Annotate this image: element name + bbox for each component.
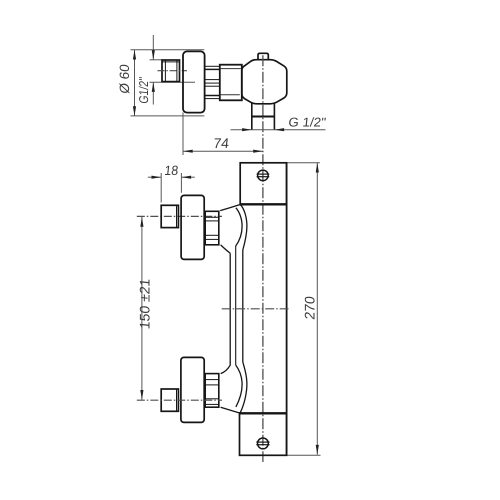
cartridge housing (side view) [220,65,242,101]
dim 18 line right arrow [181,176,194,178]
dim 74 extension (escutcheon edge extended) [182,113,184,156]
dim 74 arrows [183,150,193,153]
dim 270 extension top [287,162,320,164]
top transition shoulder upper [220,205,240,211]
bottom hex nut (front) [205,374,219,408]
wall union square (side view) [162,60,180,82]
dim 270 line [316,163,318,455]
top transition outer curve [240,205,247,251]
outlet (side view) [252,103,275,130]
dim G1/2 line lower segment with up arrow [152,82,154,104]
bottom escutcheon (front) [181,357,204,422]
mid body centerline [222,308,289,310]
dim 74 line [183,150,263,152]
dim 18 line left arrow [148,176,161,178]
dim G1/2 line upper segment with down arrow [152,35,154,60]
top wall plate [240,163,286,205]
svg-text:150 ±21: 150 ±21 [137,278,153,330]
dim Ø60 arrow up [133,50,136,60]
dim Ø60 line [134,50,136,116]
body right edge [286,163,288,456]
top screw [257,170,270,181]
knob centerline (continues into front view) [262,55,264,462]
svg-text:74: 74 [213,135,230,151]
bottom transition shoulder upper [221,372,231,374]
escutcheon (side view) [183,51,205,112]
bottom transition outer curve [240,362,247,413]
connecting tube left edge [221,253,231,373]
top transition inner curve [236,208,242,246]
top escutcheon (front) [181,195,204,259]
top inlet centerline [137,215,222,217]
bottom transition shoulder lower [221,407,240,413]
svg-text:Ø 60: Ø 60 [117,64,132,95]
inlet centerline (side view) [158,70,188,72]
bottom wall plate [240,413,287,455]
dim G 1/2 outlet leader line [231,129,326,131]
svg-text:18: 18 [164,163,179,178]
top transition shoulder lower [221,245,231,253]
bottom plate top thick line [239,412,287,414]
dim Ø60 extension line top [131,49,205,51]
dim 150±21 line [141,217,143,400]
button on knob [258,53,268,59]
dim G1/2 extension bottom [150,81,196,83]
dim 18 extensions [160,173,162,203]
top plate bottom thick line [240,203,288,205]
bottom inlet centerline [137,399,222,401]
dim 150±21 arrows [140,217,143,227]
svg-text:G1/2": G1/2" [136,76,151,104]
dim 270 arrows [316,163,319,173]
bottom transition inner curve [236,365,242,407]
bottom screw [256,438,269,449]
connecting tube right edge [242,250,244,362]
dim 270 extension bottom [287,454,321,456]
svg-text:G 1/2": G 1/2" [288,115,328,130]
bottom wall nut [161,389,178,411]
dim Ø60 extension line bottom [131,115,205,117]
top wall nut [161,205,178,227]
dim G1/2 extension top [150,59,163,61]
top hex nut (front) [205,211,219,245]
threaded nipple (side view) [205,66,220,98]
connecting tube middle line [235,246,237,365]
svg-text:270: 270 [302,295,318,320]
dim Ø60 arrow down [133,106,136,116]
knob (side view, octagon) [242,60,287,104]
dim G 1/2 outlet arrows [242,128,252,131]
